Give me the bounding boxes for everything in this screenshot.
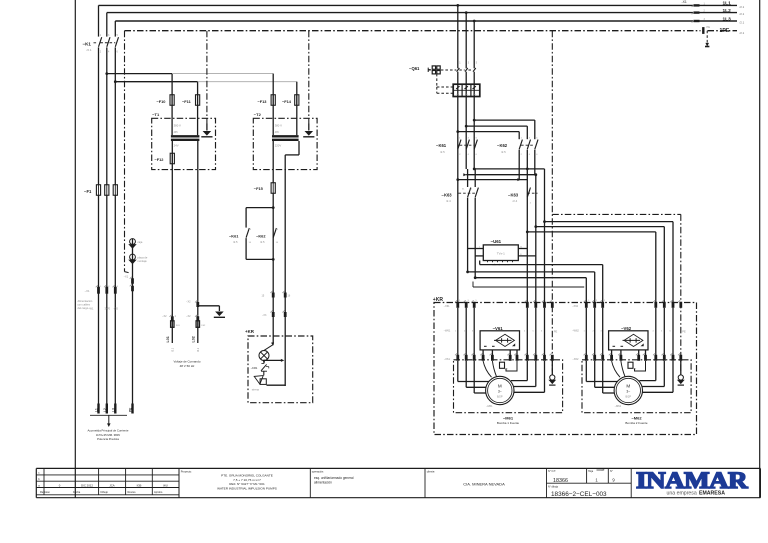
PE branch to M62 — [552, 213, 681, 215]
PE to ground 62 — [680, 361, 682, 375]
tap to M62 feed 3 — [474, 276, 477, 279]
wire L3 drop left — [114, 21, 116, 37]
wires into cell 62 — [585, 308, 587, 355]
V62 sense curves — [612, 361, 620, 377]
gray feed to T2 primary a — [172, 73, 273, 75]
number boxes — [630, 468, 632, 497]
T1 secondary wires — [171, 141, 173, 343]
svg-text:M: M — [498, 384, 502, 389]
transformer T2 enclosure — [253, 118, 317, 169]
svg-text:/2.1: /2.1 — [740, 21, 745, 25]
svg-text:L01: L01 — [166, 336, 170, 342]
svg-text:operación:: operación: — [312, 469, 324, 473]
svg-text:1PE: 1PE — [720, 28, 730, 34]
svg-text:/3.1: /3.1 — [172, 347, 175, 352]
bus 1L3 — [115, 20, 737, 22]
svg-text:JCA: JCA — [109, 483, 114, 487]
svg-text:Bomba 2 Fuente: Bomba 2 Fuente — [625, 421, 648, 425]
svg-text:N°: N° — [610, 470, 613, 473]
svg-text:−F13: −F13 — [258, 99, 268, 104]
cross link to M62 group 2 phase b — [534, 225, 537, 228]
motor cell enclosure 61 — [454, 360, 563, 413]
svg-text:WATER INDUSTRIAL IMPULSION PUM: WATER INDUSTRIAL IMPULSION PUMPS — [217, 486, 277, 490]
svg-text:alimentación: alimentación — [314, 481, 332, 485]
K62 output drops — [518, 150, 520, 180]
svg-text:L3: L3 — [111, 408, 115, 412]
svg-text:−M61: −M61 — [486, 404, 493, 408]
V62 bottom stubs — [611, 350, 613, 356]
svg-text:Proyecto:: Proyecto: — [181, 469, 192, 473]
svg-text:−K1: −K1 — [83, 42, 92, 47]
svg-text:−F14: −F14 — [282, 99, 292, 104]
svg-text:/2.1: /2.1 — [87, 48, 92, 52]
wire L2 drop left — [106, 13, 108, 37]
svg-text:/2.1: /2.1 — [740, 31, 745, 35]
svg-text:DIC 2012: DIC 2012 — [81, 483, 93, 487]
cliente box — [546, 468, 548, 497]
incoming cable mark — [90, 414, 127, 416]
svg-text:18366−2−CEL−003: 18366−2−CEL−003 — [551, 491, 607, 498]
svg-text:Alimentacion: Alimentacion — [78, 299, 93, 303]
PE dash-dot drop right — [551, 31, 553, 372]
svg-text:48 V 50 Hz: 48 V 50 Hz — [180, 364, 195, 368]
svg-text:Hoja: Hoja — [588, 470, 594, 473]
svg-text:N° O.T.: N° O.T. — [548, 470, 556, 473]
svg-text:INAMAR: INAMAR — [636, 468, 748, 493]
svg-text:L02: L02 — [192, 336, 196, 342]
motor feeds right 62 — [655, 361, 657, 381]
svg-text:Bomba 1 Fuente: Bomba 1 Fuente — [497, 421, 520, 425]
svg-text:montaje: montaje — [138, 259, 148, 263]
svg-text:3~: 3~ — [626, 390, 630, 394]
transformer T2 windings — [272, 95, 274, 135]
svg-text:−X1: −X1 — [124, 275, 129, 279]
bus 1L2 — [107, 12, 737, 14]
svg-text:−W62: −W62 — [572, 329, 579, 333]
bus 1L1 — [99, 4, 738, 6]
svg-text:−K62: −K62 — [497, 143, 508, 148]
V61 sense curves — [483, 361, 491, 377]
link to right wire — [263, 361, 265, 364]
control fuses LD — [171, 321, 174, 328]
svg-text:−V61: −V61 — [493, 326, 504, 331]
proyecto box — [309, 468, 311, 497]
svg-text:1L3: 1L3 — [723, 16, 732, 22]
transformer T1 enclosure — [152, 118, 216, 169]
thermistor -Y62 — [628, 362, 633, 368]
svg-text:−M62: −M62 — [615, 404, 622, 408]
svg-text:−K61: −K61 — [229, 234, 239, 239]
branch to K61 aux — [272, 206, 275, 209]
svg-text:−F15: −F15 — [254, 186, 264, 191]
U61 right stubs — [518, 248, 527, 250]
revision table — [36, 474, 179, 476]
svg-text:/2.5: /2.5 — [440, 150, 445, 154]
svg-text:/2.4: /2.4 — [513, 199, 518, 203]
operacion box — [424, 468, 426, 497]
cross link to M62 group 2 phase a — [526, 231, 529, 234]
svg-text:con cables: con cables — [78, 303, 91, 307]
bus 1PE — [125, 30, 701, 32]
wire T2 primary b drop — [296, 82, 298, 95]
drop wire C from 1L3 — [473, 20, 476, 23]
svg-text:Revision: Revision — [40, 490, 51, 494]
svg-text:−M61: −M61 — [503, 415, 514, 420]
U61 bottom pins — [487, 261, 489, 263]
svg-text:/2.5: /2.5 — [501, 150, 506, 154]
svg-text:L1: L1 — [95, 408, 99, 412]
K63 outputs to U61 — [467, 198, 469, 272]
branch row to K62 phase B — [465, 125, 468, 128]
thermistor -Y61 — [500, 362, 505, 368]
svg-text:−X1: −X1 — [85, 289, 90, 293]
svg-text:24V: 24V — [174, 144, 179, 148]
KR pilot box enclosure — [248, 336, 313, 403]
cross link to M62 group 2 phase c — [543, 220, 546, 223]
svg-text:−X61: −X61 — [444, 304, 451, 308]
terminal -X1 PE — [702, 27, 704, 34]
svg-text:−K63: −K63 — [442, 192, 453, 197]
auxiliary line — [473, 286, 584, 288]
svg-text:/2.1: /2.1 — [740, 12, 745, 16]
svg-text:PE: PE — [682, 330, 686, 334]
svg-text:del cargo: del cargo — [78, 306, 89, 310]
svg-text:−V62: −V62 — [621, 326, 632, 331]
svg-text:−T2: −T2 — [254, 112, 262, 117]
svg-text:+KR: +KR — [245, 329, 255, 334]
buzzer — [254, 376, 263, 385]
transformer T1 windings — [171, 95, 173, 135]
svg-text:/2.5: /2.5 — [260, 240, 265, 244]
svg-text:-X1: -X1 — [682, 0, 687, 4]
V61 bottom stubs — [482, 350, 484, 356]
svg-text:Reviso: Reviso — [128, 490, 136, 494]
wire L1 to fuse F1 — [98, 47, 100, 184]
gray feed to T2 primary b — [198, 81, 297, 83]
svg-text:−X61: −X61 — [444, 357, 451, 361]
svg-text:Aprobo: Aprobo — [154, 490, 163, 494]
svg-text:−X3: −X3 — [262, 314, 267, 317]
svg-text:1L2: 1L2 — [723, 8, 732, 14]
svg-text:−W1: −W1 — [88, 307, 94, 311]
svg-text:PE: PE — [129, 408, 133, 412]
svg-text:cliente:: cliente: — [427, 469, 435, 473]
motor feeds left 62 — [585, 361, 587, 382]
svg-text:Voltaje de Comando: Voltaje de Comando — [173, 359, 200, 363]
branch row to K62 phase A — [456, 130, 459, 133]
rejoin row 3 — [456, 178, 459, 181]
wire L2 to fuse F1 — [106, 47, 108, 184]
svg-text:−F1: −F1 — [84, 189, 92, 194]
motor cell enclosure 62 — [582, 360, 691, 413]
svg-text:/2.4: /2.4 — [446, 199, 451, 203]
svg-text:−X2: −X2 — [162, 315, 167, 318]
tap to M62 feed 2 — [466, 271, 469, 274]
wire T2 primary a drop — [272, 74, 274, 95]
sheet left border — [74, 0, 76, 498]
pilot lamp — [259, 351, 269, 361]
PE to ground 61 — [551, 361, 553, 375]
chassis ground caja — [132, 239, 134, 284]
svg-text:/3.1: /3.1 — [197, 347, 200, 352]
wire L3 to fuse F1 — [114, 47, 116, 184]
svg-text:−K63: −K63 — [508, 192, 519, 197]
svg-text:PE: PE — [554, 330, 558, 334]
drop wire B from 1L2 — [465, 11, 468, 14]
svg-text:380 V: 380 V — [174, 124, 181, 128]
svg-text:−X62: −X62 — [572, 357, 579, 361]
motor feeds right 61 — [526, 361, 528, 381]
svg-text:−T1: −T1 — [152, 112, 160, 117]
svg-text:/2.1: /2.1 — [740, 5, 745, 9]
PE drop to T1 ground — [206, 31, 208, 124]
rejoin row 1 — [473, 168, 476, 171]
svg-text:−X2: −X2 — [186, 315, 191, 318]
svg-text:−K61: −K61 — [436, 143, 447, 148]
motor 61 — [486, 376, 514, 404]
wires into cell 61 — [457, 308, 459, 355]
motor 62 — [614, 376, 642, 404]
svg-text:PE: PE — [707, 25, 711, 29]
PE dash-dot drop at left — [124, 31, 126, 272]
svg-text:−Q61: −Q61 — [409, 66, 420, 71]
Q61 linkage dashes — [441, 69, 474, 71]
svg-text:L2: L2 — [103, 408, 107, 412]
svg-text:−W61: −W61 — [444, 329, 451, 333]
svg-text:−F11: −F11 — [182, 99, 192, 104]
svg-text:M: M — [626, 384, 630, 389]
svg-text:−KR1: −KR1 — [251, 366, 258, 370]
svg-text:esq. unifilar/armado general: esq. unifilar/armado general — [314, 476, 354, 480]
ground branch under T1 — [198, 305, 220, 307]
svg-text:3x70: 3x70 — [105, 307, 111, 311]
U61 output to M62 feed 1 — [479, 261, 481, 265]
T2 secondary wire b with step — [298, 141, 300, 155]
svg-text:N° dibujo: N° dibujo — [548, 486, 559, 489]
svg-text:TVx-1: TVx-1 — [497, 252, 505, 256]
svg-text:−F10: −F10 — [157, 99, 166, 104]
svg-text:−F12: −F12 — [155, 157, 165, 162]
svg-text:Dibujo: Dibujo — [101, 490, 109, 494]
svg-text:WU: WU — [163, 483, 168, 487]
T2 secondary wire a — [272, 141, 274, 183]
svg-text:435: 435 — [275, 131, 280, 134]
svg-text:−M62: −M62 — [631, 415, 642, 420]
sheet right border — [759, 0, 761, 498]
wire L1 drop left — [98, 5, 100, 36]
fuse block -F61 — [453, 84, 480, 96]
svg-text:caja: caja — [138, 240, 143, 244]
rejoin row 2 — [463, 173, 466, 176]
wires below F1 — [98, 195, 100, 403]
svg-text:IGB: IGB — [137, 483, 142, 487]
drop wire A from 1L1 — [456, 4, 459, 7]
svg-text:−U61: −U61 — [491, 239, 502, 244]
title block outline — [36, 467, 760, 469]
svg-text:sirena: sirena — [252, 388, 260, 392]
cabinet +KR enclosure — [434, 303, 697, 435]
svg-text:Potencia Prevista: Potencia Prevista — [97, 437, 119, 441]
svg-text:380 V: 380 V — [275, 124, 282, 128]
PE drop to earth at top right — [706, 31, 708, 43]
PE drop to T2 ground — [308, 31, 310, 124]
svg-text:18366: 18366 — [553, 478, 568, 484]
svg-text:220V: 220V — [275, 144, 282, 148]
svg-text:placa de: placa de — [138, 256, 148, 260]
bottom terminals L1 L2 L3 PE — [97, 404, 99, 414]
svg-text:435: 435 — [174, 131, 179, 134]
svg-text:−K62: −K62 — [256, 234, 266, 239]
svg-text:Fecha: Fecha — [73, 490, 81, 494]
branch to T1 primary b — [114, 80, 117, 83]
svg-text:−X2: −X2 — [186, 301, 191, 304]
svg-text:una empresa: una empresa — [667, 491, 697, 497]
svg-text:/2.5: /2.5 — [233, 240, 238, 244]
motor feeds left 61 — [457, 361, 459, 382]
branch to T1 primary a — [105, 72, 108, 75]
wires B C to K63 — [467, 169, 469, 187]
chassis ground placa de montaje — [130, 254, 136, 260]
lamp elbow — [272, 341, 274, 345]
svg-text:B/2P: B/2P — [497, 395, 503, 399]
svg-text:CIA. MINERA NEVADA: CIA. MINERA NEVADA — [463, 482, 505, 487]
svg-text:+35: +35 — [114, 307, 119, 311]
branch row to K62 phase C — [473, 119, 476, 122]
svg-text:3~: 3~ — [498, 390, 502, 394]
svg-text:EMARESA: EMARESA — [699, 491, 725, 497]
svg-text:1L1: 1L1 — [723, 1, 732, 7]
rejoin K61/K62 aux — [246, 258, 273, 260]
svg-text:−X62: −X62 — [572, 304, 579, 308]
buzzer to right wire — [267, 384, 286, 386]
svg-text:B/2P: B/2P — [625, 395, 631, 399]
